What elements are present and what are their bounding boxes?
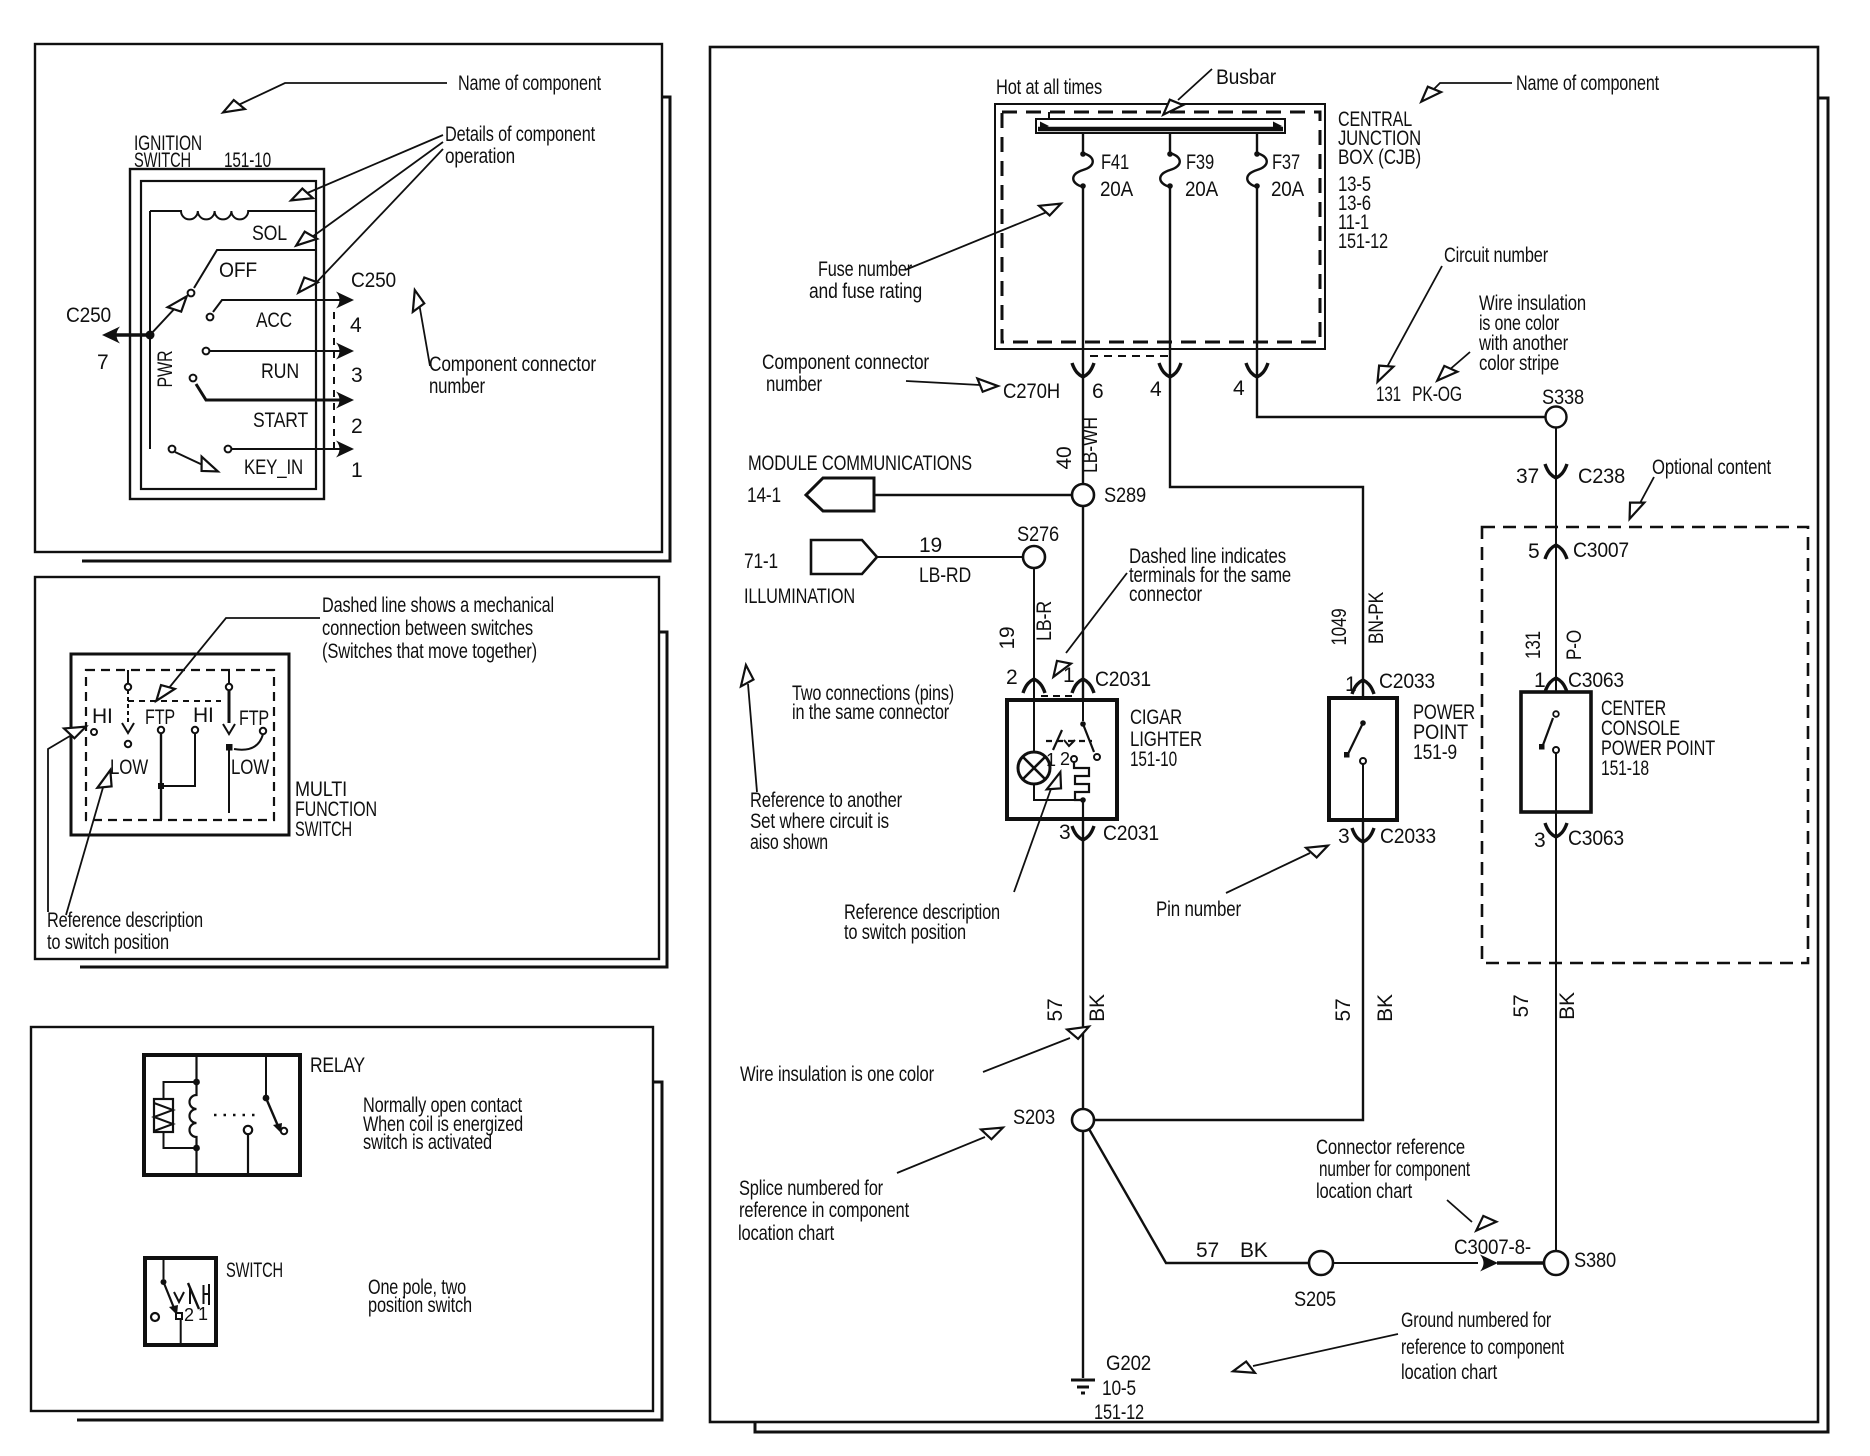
- leader: details line 1: [305, 135, 443, 194]
- switch left contact circle: [151, 1313, 159, 1321]
- arrowhead: RUN pin3: [336, 343, 354, 360]
- svg-text:1049: 1049: [1328, 609, 1351, 646]
- svg-text:151-10: 151-10: [1130, 748, 1177, 771]
- svg-text:LB-RD: LB-RD: [919, 564, 971, 587]
- svg-text:SWITCH: SWITCH: [295, 818, 352, 841]
- busbar inner bar: [1038, 127, 1283, 132]
- wire S203 diagonal to S205: [1089, 1129, 1309, 1263]
- leader: reference description to 1 2: [1014, 786, 1052, 892]
- svg-text:5: 5: [1528, 540, 1539, 563]
- svg-text:S380: S380: [1574, 1249, 1616, 1272]
- cigar lamp bottom wire: [1034, 784, 1080, 800]
- svg-text:LB-WH: LB-WH: [1079, 417, 1102, 473]
- svg-text:3: 3: [1059, 821, 1070, 844]
- wire S276 down to cigar: [1033, 568, 1035, 700]
- wire F37 to S338: [1257, 186, 1546, 417]
- relay coil top node: [193, 1079, 200, 1086]
- svg-text:1: 1: [1046, 750, 1056, 770]
- svg-text:Reference to another: Reference to another: [750, 789, 902, 812]
- svg-text:number: number: [766, 373, 822, 396]
- switch blade: [164, 1282, 175, 1308]
- cigar pin2 wire into box: [1033, 692, 1035, 752]
- connector C270H pin4a: [1159, 363, 1181, 377]
- svg-text:MODULE COMMUNICATIONS: MODULE COMMUNICATIONS: [748, 452, 972, 475]
- switch 2 top contact: [226, 684, 232, 690]
- switch 1 blade arrow: [122, 723, 134, 733]
- connector C2031 pin1: [1072, 679, 1094, 693]
- C250 pin7 wire: [108, 333, 150, 337]
- svg-text:57: 57: [1510, 995, 1533, 1018]
- svg-text:2: 2: [351, 415, 362, 438]
- ccpp lower wire: [1555, 753, 1557, 812]
- svg-text:Set where circuit is: Set where circuit is: [750, 810, 889, 833]
- svg-text:Name of component: Name of component: [458, 72, 601, 95]
- leader: component connector number right: [906, 381, 980, 385]
- svg-text:PK-OG: PK-OG: [1412, 383, 1462, 406]
- switch 2 square contact: [226, 744, 233, 751]
- wire S203 to ground: [1082, 1131, 1084, 1378]
- cigar bottom wire out: [1082, 800, 1084, 819]
- svg-text:131: 131: [1376, 383, 1401, 406]
- svg-text:BK: BK: [1240, 1239, 1268, 1262]
- svg-text:151-12: 151-12: [1338, 230, 1388, 253]
- svg-text:location chart: location chart: [1316, 1180, 1412, 1203]
- svg-text:F39: F39: [1186, 151, 1214, 174]
- arrowhead: details 3: [294, 273, 318, 297]
- ignition switch outer box: [130, 169, 324, 499]
- svg-text:PWR: PWR: [154, 350, 177, 387]
- svg-text:2: 2: [184, 1305, 194, 1325]
- panel 2 frame: [35, 577, 659, 959]
- wire 71-1 to S276: [877, 556, 1023, 558]
- fuse F37 top node: [1254, 151, 1260, 157]
- switch 2 feed wire: [228, 670, 230, 684]
- ccpp blade tip square: [1539, 744, 1545, 750]
- relay switch feed wire: [265, 1055, 267, 1095]
- svg-text:3: 3: [1338, 825, 1349, 848]
- switch 2 blade arrow: [223, 724, 235, 734]
- KEY_IN rail contact circle: [169, 446, 176, 453]
- wire F41 column upper: [1082, 186, 1084, 484]
- svg-text:BOX (CJB): BOX (CJB): [1338, 146, 1421, 169]
- pp lower wire: [1362, 764, 1364, 820]
- svg-text:to switch position: to switch position: [47, 931, 169, 954]
- fuse F39: [1160, 153, 1180, 187]
- wire S338 down to center console: [1555, 427, 1557, 692]
- svg-text:71-1: 71-1: [744, 550, 778, 573]
- svg-text:4: 4: [1150, 378, 1162, 401]
- svg-text:LOW: LOW: [110, 756, 148, 779]
- fuse F37: [1247, 153, 1267, 187]
- CJB dashed box: [1002, 112, 1320, 342]
- svg-text:KEY_IN: KEY_IN: [244, 456, 303, 479]
- svg-text:number: number: [429, 375, 485, 398]
- svg-text:(Switches that move together): (Switches that move together): [322, 640, 537, 663]
- svg-text:connection between switches: connection between switches: [322, 617, 533, 640]
- leader: reference to LOW: [66, 784, 104, 915]
- arrowhead: circuit number: [1372, 360, 1394, 385]
- leader: dashed line shows: [164, 618, 320, 694]
- arrowhead: KEY_IN blade: [196, 457, 221, 478]
- arrowhead: details 2: [292, 228, 317, 251]
- arrowhead: START pin2: [336, 392, 354, 409]
- cigar heater meander: [1074, 762, 1089, 800]
- svg-text:7: 7: [97, 351, 108, 374]
- mechanical link dashed line: [128, 700, 221, 702]
- svg-text:20A: 20A: [1100, 178, 1133, 201]
- START contact circle: [190, 375, 197, 382]
- relay coil bottom wire: [164, 1132, 197, 1148]
- connector C270H pin6: [1072, 363, 1094, 377]
- wire S205 to S380: [1333, 1262, 1478, 1264]
- svg-text:151-9: 151-9: [1413, 741, 1457, 764]
- PWR junction node: [146, 331, 155, 340]
- fuse F39 bottom node: [1167, 183, 1173, 189]
- leader: wire insulation stripe: [1448, 352, 1470, 371]
- svg-text:switch is activated: switch is activated: [363, 1131, 492, 1154]
- START row wire: [196, 384, 345, 400]
- leader: wire insulation one color: [983, 1038, 1070, 1072]
- svg-text:SOL: SOL: [252, 222, 287, 245]
- svg-text:S276: S276: [1017, 523, 1059, 546]
- svg-text:ILLUMINATION: ILLUMINATION: [744, 585, 855, 608]
- relay common wire: [247, 1134, 249, 1175]
- ccpp lower contact: [1553, 747, 1559, 753]
- svg-text:C250: C250: [351, 269, 396, 292]
- arrowhead: splice numbered: [981, 1122, 1005, 1142]
- switch pivot node: [161, 1279, 167, 1285]
- svg-text:1: 1: [1534, 669, 1545, 692]
- arrowhead: reference to LOW: [97, 768, 116, 792]
- leader: reference to another set: [748, 684, 757, 792]
- svg-text:57: 57: [1332, 999, 1355, 1022]
- switch 2 wire down: [228, 750, 230, 813]
- svg-text:S203: S203: [1013, 1106, 1055, 1129]
- svg-text:connector: connector: [1129, 583, 1202, 606]
- switch tip contact square: [176, 1313, 182, 1319]
- cigar breaker slash: [1053, 730, 1062, 750]
- svg-text:S289: S289: [1104, 484, 1146, 507]
- svg-text:OFF: OFF: [219, 259, 257, 282]
- svg-text:Optional content: Optional content: [1652, 456, 1771, 479]
- ACC row wire: [213, 300, 345, 312]
- ignition switch inner box: [141, 181, 316, 489]
- relay switch blade: [266, 1098, 278, 1126]
- svg-text:Reference description: Reference description: [47, 909, 203, 932]
- relay inductor wire: [190, 1055, 197, 1175]
- fuse F39 top wire: [1169, 133, 1171, 153]
- svg-text:1: 1: [1345, 673, 1356, 696]
- cigar breaker v: [1064, 740, 1075, 746]
- svg-text:G202: G202: [1106, 1352, 1151, 1375]
- svg-text:C238: C238: [1578, 465, 1625, 488]
- svg-text:40: 40: [1053, 447, 1076, 470]
- svg-text:151-18: 151-18: [1601, 757, 1649, 780]
- relay coil zigzag: [154, 1103, 173, 1131]
- svg-text:Fuse number: Fuse number: [818, 258, 912, 281]
- panel 1 frame: [35, 44, 662, 552]
- svg-text:C2033: C2033: [1379, 670, 1435, 693]
- switch bottom wire: [180, 1319, 182, 1345]
- svg-text:location chart: location chart: [1401, 1361, 1497, 1384]
- svg-text:Pin number: Pin number: [1156, 898, 1241, 921]
- svg-text:reference in component: reference in component: [739, 1199, 909, 1222]
- right panel shadow: [755, 98, 1828, 1432]
- FTP1 wire to dashed bottom: [160, 789, 162, 820]
- splice S205: [1309, 1251, 1333, 1275]
- ccpp switch pivot: [1553, 711, 1559, 717]
- switch position V mark: [174, 1292, 184, 1302]
- svg-text:color stripe: color stripe: [1479, 352, 1559, 375]
- connector dashed line C250: [333, 312, 335, 450]
- svg-text:4: 4: [350, 314, 362, 337]
- svg-text:2: 2: [1060, 749, 1070, 769]
- leader: name of component right: [1430, 83, 1512, 93]
- ground G202: [1071, 1380, 1095, 1393]
- svg-text:1: 1: [198, 1304, 208, 1324]
- wire ccpp down: [1555, 812, 1557, 1251]
- leader: details line 3: [315, 149, 443, 284]
- switch feed wire: [163, 1258, 165, 1279]
- svg-text:10-5: 10-5: [1102, 1377, 1136, 1400]
- connector C270H pin4b: [1246, 363, 1268, 377]
- dashed link C2031: [1041, 695, 1077, 697]
- svg-text:S205: S205: [1294, 1288, 1336, 1311]
- cigar switch wire: [1082, 692, 1084, 721]
- cigar blade tip circle: [1094, 754, 1100, 760]
- KEY_IN row wire: [231, 448, 345, 450]
- svg-text:C3007-8-: C3007-8-: [1454, 1236, 1531, 1259]
- arrowhead: name of component right: [1417, 83, 1441, 107]
- svg-text:to switch position: to switch position: [844, 921, 966, 944]
- svg-text:Splice numbered for: Splice numbered for: [739, 1177, 883, 1200]
- svg-text:Wire insulation is one color: Wire insulation is one color: [740, 1063, 934, 1086]
- fuse F39 top node: [1167, 151, 1173, 157]
- leader: ground numbered: [1253, 1334, 1398, 1366]
- cigar meander bottom node: [1080, 797, 1086, 803]
- arrowhead: name of component: [220, 97, 245, 118]
- center console power point box: [1521, 692, 1591, 812]
- leader: dashed line indicates: [1066, 573, 1127, 653]
- arrowhead: C250 left: [102, 327, 120, 344]
- pp blade tip square: [1344, 752, 1350, 758]
- svg-text:C270H: C270H: [1003, 380, 1060, 403]
- svg-text:operation: operation: [445, 145, 515, 168]
- arrowhead: blade: [168, 292, 192, 316]
- panel 3 shadow: [77, 1082, 662, 1420]
- arrowhead: wire insulation stripe: [1433, 362, 1457, 386]
- cigar switch pivot: [1080, 721, 1086, 727]
- arrowhead: optional content: [1624, 497, 1645, 522]
- svg-text:57: 57: [1044, 999, 1067, 1022]
- switch 1 blade: [127, 690, 129, 722]
- leader: name of component: [232, 83, 447, 108]
- svg-text:Name of component: Name of component: [1516, 72, 1659, 95]
- fuse F37 top wire: [1256, 133, 1258, 153]
- arrowhead: C3007-8: [1480, 1255, 1498, 1272]
- OFF contact circle: [188, 290, 195, 297]
- connector C3063 pin3: [1545, 823, 1567, 837]
- wire pp down to S203: [1093, 820, 1363, 1120]
- fuse F41 bottom node: [1080, 183, 1086, 189]
- arrowhead: reference to another set: [739, 665, 753, 687]
- svg-text:C2031: C2031: [1095, 668, 1151, 691]
- connector C2033 pin1: [1352, 680, 1374, 694]
- leader: circuit number: [1387, 266, 1442, 367]
- RUN row wire: [210, 350, 345, 352]
- arrowhead: component connector number: [408, 289, 425, 312]
- svg-text:Component connector: Component connector: [429, 353, 596, 376]
- relay coil top wire: [164, 1082, 197, 1099]
- cigar lighter box: [1007, 700, 1117, 819]
- svg-text:BK: BK: [1556, 992, 1579, 1020]
- arrowhead: component connector number right: [977, 378, 999, 392]
- switch blade arrowhead: [169, 1305, 178, 1315]
- pentagon connector 14-1: [806, 478, 874, 511]
- PWR rail wire: [149, 211, 151, 449]
- multifunction switch box: [71, 654, 289, 835]
- svg-text:RELAY: RELAY: [310, 1054, 365, 1077]
- switch position tick: [189, 1288, 191, 1304]
- right panel frame: [710, 47, 1818, 1422]
- FTP 1 wire down: [160, 733, 162, 786]
- leader: reference to HI: [48, 733, 75, 912]
- fuse F41 top node: [1080, 151, 1086, 157]
- CJB outer box: [995, 104, 1325, 349]
- arrowhead: reference description: [1047, 770, 1067, 794]
- svg-text:C250: C250: [66, 304, 111, 327]
- svg-text:C3063: C3063: [1568, 669, 1624, 692]
- svg-text:BK: BK: [1374, 994, 1397, 1022]
- arrowhead: wire insulation one color: [1067, 1021, 1092, 1042]
- cigar switch blade: [1083, 724, 1094, 752]
- leader: details line 2: [312, 142, 443, 237]
- power point box: [1329, 698, 1397, 820]
- busbar stub: [1048, 112, 1050, 119]
- relay dotted link: [214, 1114, 259, 1117]
- svg-text:Details of component: Details of component: [445, 123, 595, 146]
- pp lower contact: [1360, 758, 1366, 764]
- svg-text:number for component: number for component: [1319, 1158, 1470, 1181]
- splice S338: [1546, 407, 1567, 428]
- FTP 2 contact circle: [260, 728, 266, 734]
- leader: pin number: [1226, 853, 1310, 893]
- splice S380: [1544, 1251, 1568, 1275]
- cigar lamp X: [1023, 757, 1045, 779]
- splice S289: [1072, 484, 1094, 506]
- leader: optional content: [1640, 477, 1654, 503]
- svg-text:Component connector: Component connector: [762, 351, 929, 374]
- pentagon connector 71-1: [811, 540, 877, 574]
- panel 2 shadow: [80, 632, 667, 967]
- switch box: [145, 1258, 216, 1345]
- HI 2 contact circle: [192, 727, 198, 733]
- svg-text:37: 37: [1516, 465, 1539, 488]
- svg-text:131: 131: [1522, 631, 1545, 659]
- pp switch pivot: [1360, 720, 1366, 726]
- svg-text:S338: S338: [1542, 386, 1584, 409]
- leader: busbar: [1178, 69, 1212, 100]
- cigar element contact circle: [1071, 756, 1077, 762]
- arrowhead: dashed line shows: [151, 681, 174, 705]
- svg-text:Dashed line shows a mechanical: Dashed line shows a mechanical: [322, 594, 554, 617]
- pp switch blade: [1348, 723, 1363, 754]
- wire cigar down to S203: [1082, 819, 1084, 1109]
- svg-text:57: 57: [1196, 1239, 1219, 1262]
- solenoid coil L1: [150, 211, 316, 219]
- svg-text:6: 6: [1092, 380, 1103, 403]
- leader: splice numbered: [897, 1137, 985, 1173]
- relay switch pivot node: [263, 1095, 270, 1102]
- FTP 1 contact circle: [158, 727, 164, 733]
- svg-text:20A: 20A: [1185, 178, 1218, 201]
- arrowhead: pin number: [1306, 840, 1330, 860]
- connector C2033 pin3: [1352, 828, 1374, 842]
- optional content dashed box: [1482, 527, 1808, 963]
- relay coil bottom node: [193, 1145, 200, 1152]
- ccpp switch blade: [1543, 718, 1553, 745]
- arrowhead: fuse number: [1039, 198, 1063, 218]
- switch throw 1 slash: [188, 1283, 199, 1309]
- wire F39 column upper: [1170, 186, 1363, 698]
- busbar left arrow: [1040, 122, 1049, 131]
- connector C2031 pin2: [1023, 679, 1045, 693]
- arrowhead: busbar: [1159, 96, 1183, 120]
- svg-text:2: 2: [1006, 666, 1017, 689]
- svg-text:Hot at all times: Hot at all times: [996, 76, 1102, 99]
- svg-text:1: 1: [351, 459, 362, 482]
- dashed link C270H: [1090, 355, 1168, 357]
- arrowhead: connector reference: [1472, 1212, 1496, 1236]
- arrowhead: details 1: [289, 186, 313, 206]
- busbar right arrow: [1273, 122, 1282, 131]
- OFF row wire: [194, 250, 316, 288]
- svg-text:C3007: C3007: [1573, 539, 1629, 562]
- svg-text:3: 3: [351, 364, 362, 387]
- svg-text:location chart: location chart: [738, 1222, 834, 1245]
- switch 1 top contact: [125, 684, 131, 690]
- svg-text:HI: HI: [92, 705, 113, 728]
- svg-text:LOW: LOW: [231, 756, 269, 779]
- svg-text:3: 3: [1534, 829, 1545, 852]
- svg-text:Circuit number: Circuit number: [1444, 244, 1548, 267]
- busbar: [1036, 119, 1285, 133]
- RUN contact circle: [203, 348, 210, 355]
- fuse F41: [1073, 153, 1093, 187]
- svg-text:F41: F41: [1101, 151, 1129, 174]
- svg-text:P-O: P-O: [1563, 630, 1586, 660]
- leader: connector reference: [1447, 1200, 1472, 1222]
- connector C2031 pin3: [1072, 826, 1094, 840]
- relay common contact circle: [244, 1126, 252, 1134]
- connector C3007: [1545, 545, 1567, 559]
- arrowhead: ground numbered: [1232, 1360, 1255, 1377]
- svg-text:F37: F37: [1272, 151, 1300, 174]
- svg-text:RUN: RUN: [261, 360, 299, 383]
- HI 1 contact circle: [91, 729, 97, 735]
- relay blade tip circle: [281, 1128, 287, 1134]
- cigar breaker dashed element: [1046, 740, 1092, 742]
- relay box: [144, 1055, 300, 1175]
- cigar lamp: [1018, 752, 1050, 784]
- svg-text:C2031: C2031: [1103, 822, 1159, 845]
- relay coil resistor box: [154, 1099, 173, 1132]
- svg-text:ACC: ACC: [256, 309, 292, 332]
- svg-text:C2033: C2033: [1380, 825, 1436, 848]
- link wire FTP1 to HI2: [161, 733, 195, 786]
- svg-text:Connector reference: Connector reference: [1316, 1136, 1465, 1159]
- svg-text:Ground numbered for: Ground numbered for: [1401, 1309, 1551, 1332]
